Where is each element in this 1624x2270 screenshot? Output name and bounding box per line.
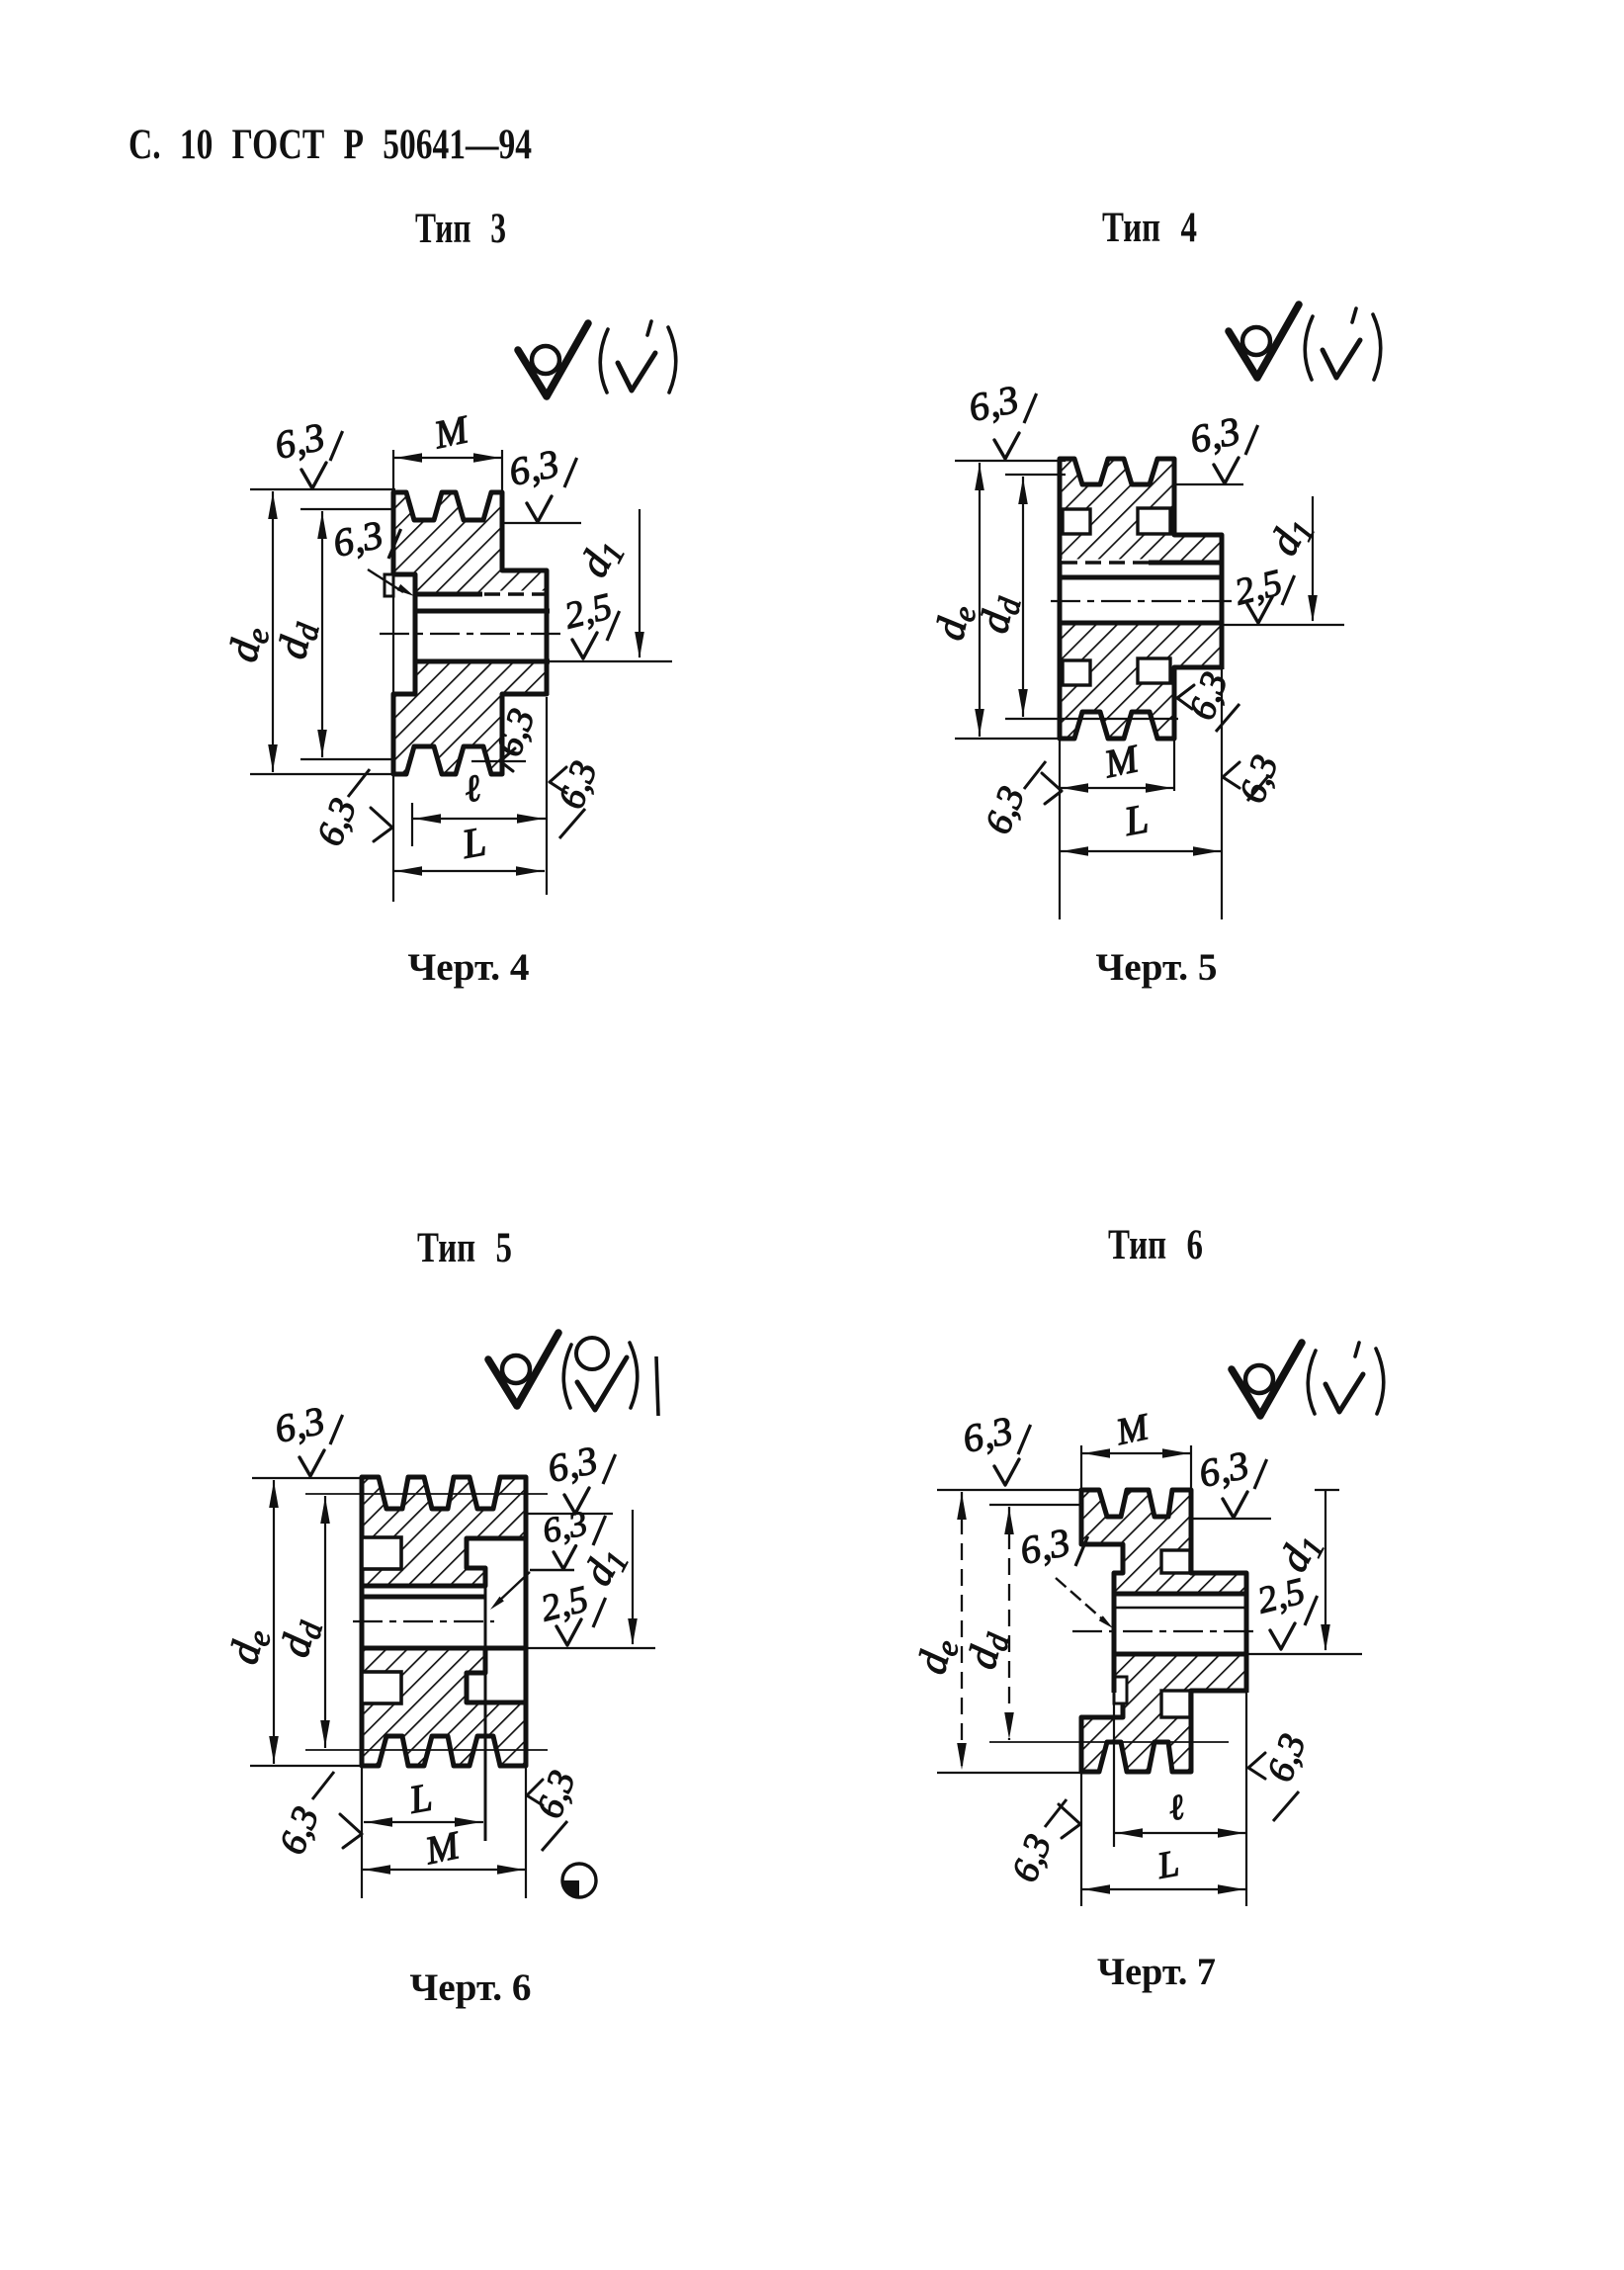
drawing 3 rim right edge [524, 1480, 529, 1764]
drawing 3 bore bottom line [362, 1646, 655, 1651]
svg-text:Тип 6: Тип 6 [1108, 1222, 1203, 1268]
roughness 6,3 top-left (drawing 1) [271, 414, 343, 488]
roughness 6,3 bottom-left (drawing 4) [1004, 1799, 1080, 1887]
roughness 6,3 inner with leader (drawing 3) [488, 1503, 606, 1612]
dimension l inner (drawing 1) [412, 767, 546, 846]
drawing 4 upper rim+hub section (hatched) [1081, 1490, 1246, 1594]
drawing 2 lower groove notches [1063, 658, 1170, 685]
svg-text:Черт. 6: Черт. 6 [410, 1966, 532, 2009]
dimension de (drawing 4) [909, 1490, 1083, 1773]
roughness 2,5 (drawing 2) [1231, 562, 1295, 623]
drawing 4 title [1108, 1222, 1203, 1268]
dimension dd (drawing 1) [270, 509, 393, 759]
drawing 1 title [415, 206, 506, 252]
drawing 2 upper rim+hub section (hatched) [1060, 459, 1222, 563]
drawing 4 lower notches [1114, 1677, 1190, 1717]
roughness 6,3 bottom-left (drawing 3) [272, 1772, 362, 1860]
drawing 1 centre line [380, 633, 561, 635]
drawing 3 left face through bore [360, 1582, 365, 1651]
drawing 1 roughness symbols [518, 321, 676, 396]
drawing 2 roughness symbols [1229, 305, 1381, 380]
drawing 3 lower notch [362, 1672, 401, 1703]
drawing 4 hub faces [1114, 1573, 1246, 1693]
drawing 3 centre line [353, 1620, 494, 1622]
dimension M (drawing 2) [1060, 736, 1174, 793]
svg-text:С. 10 ГОСТ Р 50641—94: С. 10 ГОСТ Р 50641—94 [128, 122, 532, 168]
drawing 3 title [417, 1225, 512, 1271]
drawing 1 bore bottom line [415, 659, 672, 664]
svg-text:Черт. 4: Черт. 4 [408, 946, 530, 989]
roughness 6,3 top-left (drawing 2) [965, 377, 1037, 459]
drawing 2 title [1102, 205, 1197, 251]
svg-text:Тип 4: Тип 4 [1102, 205, 1197, 251]
drawing 1 right extension lines [502, 450, 547, 895]
roughness 6,3 lower-right (drawing 2) [1223, 749, 1287, 808]
drawing 2 bore top line [1060, 575, 1224, 580]
drawing 2 upper groove notches [1063, 508, 1170, 534]
drawing 3 upper rim section (hatched) [362, 1477, 526, 1586]
drawing 2 keyway hidden line [1062, 560, 1149, 567]
roughness 6,3 right of M (drawing 1) [502, 441, 581, 523]
svg-text:Черт. 7: Черт. 7 [1097, 1951, 1216, 1993]
page header [128, 122, 532, 168]
drawing 1 caption [408, 946, 530, 989]
drawing 1 upper rim+hub section (hatched) [393, 492, 547, 594]
drawing 3 lower rim section (hatched) [362, 1648, 526, 1766]
drawing 4 lower rim+hub section (hatched) [1081, 1654, 1246, 1772]
drawing 3 roughness symbols [488, 1333, 658, 1416]
drawing 3 rotated-view circle symbol [562, 1864, 596, 1897]
dimension L outer (drawing 4) [1081, 1843, 1246, 1894]
dimension d1 (drawing 3) [575, 1510, 638, 1645]
roughness 6,3 top-left (drawing 3) [271, 1398, 343, 1476]
roughness 6,3 top-right (drawing 3) [526, 1438, 616, 1514]
roughness 6,3 right (drawing 4) [1248, 1728, 1315, 1821]
drawing 3 hub face line [484, 1568, 487, 1841]
drawing 2 extension lines [1060, 667, 1222, 919]
dimension M (drawing 1) [393, 406, 502, 463]
drawing 4 keyway line [1114, 1607, 1246, 1609]
dimension M (drawing 4) [1081, 1406, 1191, 1458]
roughness 6,3 top-left (drawing 4) [959, 1408, 1031, 1485]
drawing 2 bore bottom line [1060, 623, 1344, 625]
drawing 2 centre line [1051, 600, 1232, 602]
roughness 2,5 (drawing 1) [560, 585, 620, 658]
drawing 4 extension lines [1081, 1445, 1246, 1906]
roughness 6,3 mid-left with leader (drawing 1) [329, 512, 416, 600]
dimension M outer (drawing 3) [362, 1822, 526, 1875]
roughness 6,3 outer right (drawing 1) [550, 755, 606, 838]
dimension L (drawing 2) [1060, 797, 1222, 856]
roughness 6,3 bottom-left (drawing 1) [309, 769, 392, 851]
dimension dd (drawing 3) [273, 1494, 548, 1750]
drawing 4 centre line [1072, 1630, 1255, 1632]
drawing 3 bore top lines [362, 1586, 485, 1597]
drawing 2 hub faces [1060, 535, 1222, 669]
drawing 4 bore bottom line [1114, 1652, 1362, 1657]
roughness 6,3 bottom-left (drawing 2) [978, 761, 1062, 839]
drawing 4 caption [1097, 1951, 1216, 1993]
roughness 2,5 (drawing 4) [1253, 1570, 1318, 1649]
drawing 3 upper notch [362, 1537, 401, 1569]
dimension dd (drawing 4) [960, 1505, 1229, 1742]
roughness 6,3 top-right (drawing 4) [1191, 1442, 1271, 1519]
roughness 6,3 inner right (drawing 1) [471, 703, 544, 771]
dimension L inner (drawing 3) [364, 1775, 483, 1827]
dimension l inner (drawing 4) [1114, 1787, 1246, 1838]
drawing 3 caption [410, 1966, 532, 2009]
drawing 1 hub faces [415, 570, 547, 695]
drawing 2 caption [1096, 946, 1218, 989]
drawing 1 lower rim+hub section (hatched) [393, 661, 547, 774]
svg-text:Тип 5: Тип 5 [417, 1225, 512, 1271]
dimension de (drawing 1) [220, 489, 395, 774]
drawing 3 extension lines [362, 1766, 526, 1898]
roughness 6,3 top-right (drawing 2) [1174, 408, 1258, 484]
drawing 1 bore top line [415, 609, 550, 614]
dimension de (drawing 3) [221, 1478, 364, 1766]
svg-text:Тип 3: Тип 3 [415, 206, 506, 252]
roughness 6,3 bottom-right (drawing 3) [527, 1765, 584, 1851]
drawing 4 upper notch [1161, 1550, 1190, 1573]
dimension de (drawing 2) [927, 461, 1066, 739]
svg-text:Черт. 5: Черт. 5 [1096, 946, 1218, 989]
dimension d1 (drawing 4) [1271, 1490, 1339, 1651]
dimension dd (drawing 2) [972, 475, 1178, 719]
dimension L outer (drawing 1) [393, 820, 545, 876]
drawing 4 roughness symbols [1232, 1343, 1384, 1416]
drawing 1 left extension line [392, 450, 394, 902]
drawing 1 left hub step [385, 574, 393, 596]
roughness 6,3 mid-right (drawing 2) [1177, 666, 1239, 732]
dimension d1 (drawing 1) [571, 509, 644, 658]
drawing 4 bore top line [1114, 1592, 1246, 1597]
roughness 2,5 (drawing 3) [537, 1578, 606, 1645]
drawing 1 keyway hidden line [482, 591, 550, 598]
drawing 2 lower rim+hub section (hatched) [1060, 623, 1222, 739]
roughness 6,3 mid-left with leader (drawing 4) [1016, 1520, 1115, 1631]
dimension d1 (drawing 2) [1261, 496, 1323, 622]
